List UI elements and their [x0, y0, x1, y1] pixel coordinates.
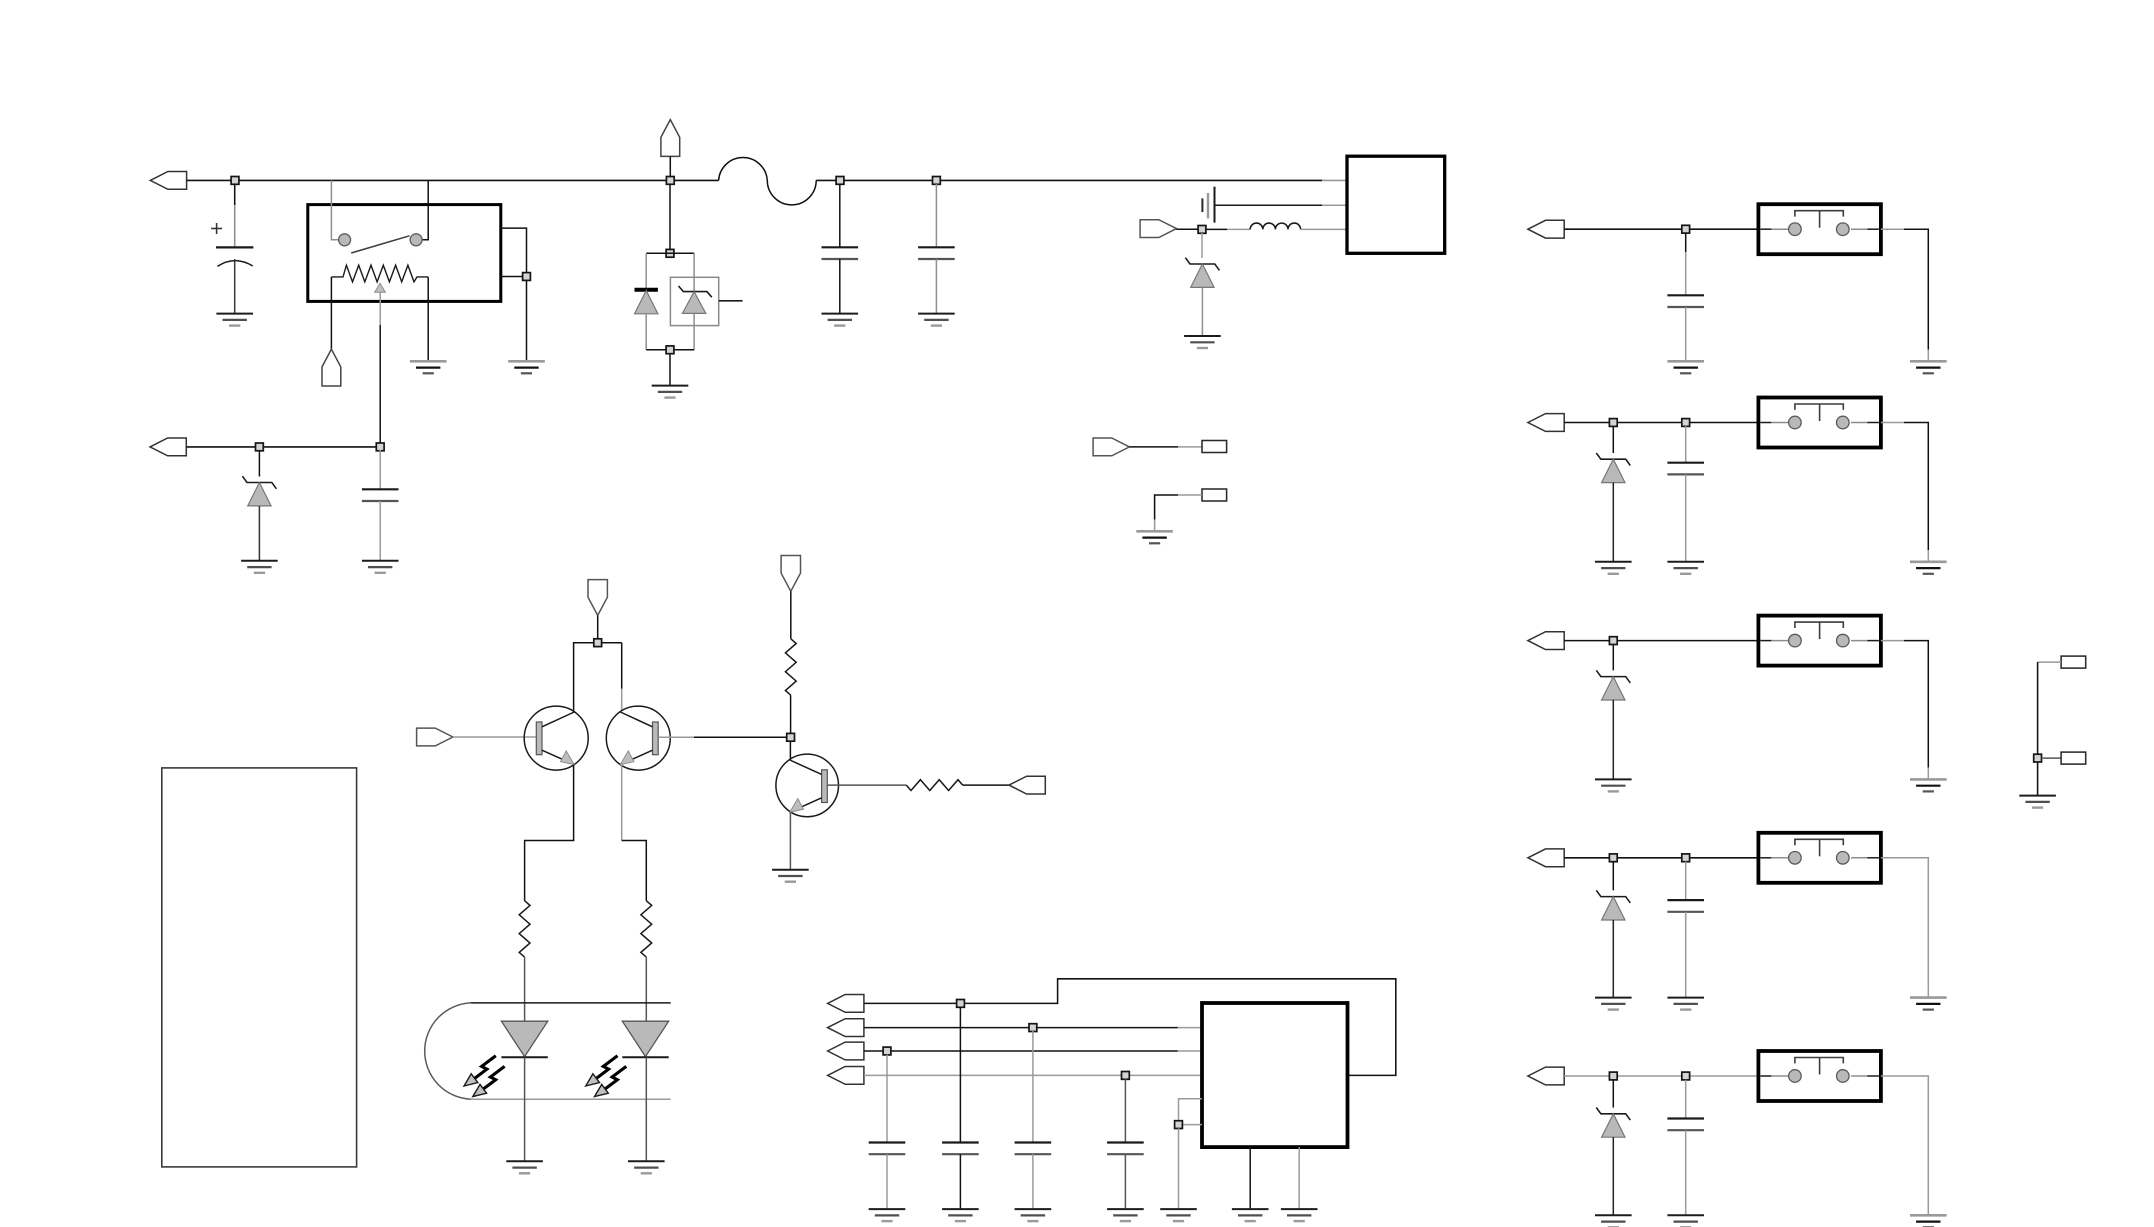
diode D2 — [635, 290, 658, 350]
wire C12 to ground — [1685, 1130, 1687, 1215]
node SW5 junction b — [1682, 1072, 1690, 1080]
wire relay switch right lead — [422, 180, 428, 239]
ground relay case — [508, 361, 545, 373]
wire S4 to ground — [1881, 858, 1928, 998]
capacitor C10 — [1667, 463, 1704, 475]
connector arrow SW4 — [1528, 849, 1564, 867]
node row2 junction — [1029, 1024, 1037, 1032]
big rectangle block — [162, 768, 357, 1167]
ground under LED D6 — [628, 1161, 665, 1173]
capacitor C1 polarized — [211, 223, 253, 314]
node power junction — [666, 177, 674, 185]
wire C11 to ground — [1685, 912, 1687, 998]
wire TP2 to ground — [1155, 495, 1202, 531]
wire R1 to LED1 — [524, 957, 526, 1021]
ground under D10 — [1595, 1215, 1632, 1227]
LED D6 light arrows — [597, 1056, 627, 1089]
capacitor C9 — [1667, 295, 1704, 307]
wire relay switch left lead — [331, 180, 338, 239]
TVS D3 box — [670, 277, 718, 325]
wire zener D1 lead — [258, 450, 260, 477]
wire SW2 row — [1564, 422, 1758, 424]
node junction at C1 — [231, 177, 239, 185]
wire R2 to LED2 — [645, 957, 647, 1021]
IC U2 box — [1202, 1003, 1348, 1147]
node ANT junction — [1198, 226, 1206, 234]
ground under D4 — [1184, 336, 1221, 348]
wire inductor to U1 — [1301, 228, 1347, 230]
ground U2 left — [1160, 1209, 1197, 1221]
node diode pair bottom junction — [666, 346, 674, 354]
wire C8 to ground — [1124, 1154, 1126, 1209]
transistor Q2 — [606, 706, 670, 770]
ground under LED D5 — [506, 1161, 543, 1173]
wire coil right lead down — [427, 277, 429, 361]
ground S4 — [1910, 998, 1947, 1010]
node row1 junction — [957, 1000, 965, 1008]
switch S1 — [1758, 204, 1881, 254]
LED D5 arrowheads — [464, 1074, 487, 1097]
testpoint TP1 — [1202, 441, 1227, 453]
wire C10 lead — [1685, 426, 1687, 463]
wire C1 lead — [234, 184, 236, 205]
wire zener D8 lead — [1612, 644, 1614, 670]
node row4 junction — [1122, 1072, 1130, 1080]
wire TVS cathode lead — [693, 253, 695, 291]
power flag over R3 — [781, 556, 800, 592]
ground under C5 — [869, 1209, 906, 1221]
wire SW1 row — [1564, 228, 1758, 230]
wire C7 to ground — [1032, 1154, 1034, 1209]
wire row2 — [864, 1027, 1202, 1029]
ground under C8 — [1107, 1209, 1144, 1221]
wire diode pair top bar — [646, 252, 694, 254]
chassis antenna symbol — [1202, 187, 1214, 223]
ground under D9 — [1595, 998, 1632, 1010]
relay K1 blade — [351, 236, 409, 253]
wire D4 to ground — [1201, 287, 1203, 336]
wire pin stub into U1 — [1322, 179, 1347, 181]
wire row4 — [864, 1074, 1202, 1076]
wire C5 to ground — [886, 1154, 888, 1209]
ground under C12 — [1667, 1215, 1704, 1227]
wire S3 to ground — [1881, 641, 1928, 780]
wire R4 to connector — [963, 784, 1009, 786]
wire zener D10 lead — [1612, 1080, 1614, 1108]
connector J? left arrow VIN — [150, 172, 186, 190]
diode D1 zener — [242, 476, 276, 506]
wire row2 — [186, 446, 380, 448]
relay K1 contact left — [339, 234, 351, 246]
node junction C3 — [836, 177, 844, 185]
node SW4 junction b — [1682, 854, 1690, 862]
wire R3 to node — [790, 695, 792, 733]
diode D7 zener — [1596, 453, 1630, 483]
transistor Q1 — [524, 706, 588, 770]
switch S4 — [1758, 833, 1881, 883]
wire SW3 row — [1564, 640, 1758, 642]
ground U2 bottom 2 — [1281, 1209, 1318, 1221]
capacitor C3 — [822, 247, 859, 259]
wire C11 lead — [1685, 862, 1687, 901]
diode D8 zener — [1596, 670, 1630, 700]
wire Q2 base to node — [658, 736, 786, 738]
ground U2 bottom 1 — [1232, 1209, 1269, 1221]
wire LED D6 to ground — [645, 1057, 647, 1161]
capacitor C2 — [362, 489, 399, 501]
wire TP3 to TP4 — [2038, 662, 2062, 758]
LED D5 — [501, 1021, 547, 1057]
connector arrow IC row3 — [828, 1042, 864, 1060]
wire C6 to ground — [959, 1154, 961, 1209]
wire TP4 stub — [2042, 757, 2062, 759]
wire Q1 collector down — [525, 765, 574, 901]
capacitor C8 — [1107, 1143, 1144, 1155]
connector left arrow Q3 out — [1009, 776, 1045, 794]
wire U2 pin to ground — [1178, 1128, 1180, 1209]
relay K1 contact right — [410, 234, 422, 246]
wire C4 lead — [935, 184, 937, 247]
node TP4 junction — [2034, 754, 2042, 762]
wire TP4 to ground — [2037, 762, 2039, 796]
wire C9 to ground — [1685, 307, 1687, 361]
switch S5 — [1758, 1051, 1881, 1101]
ground TP4 — [2019, 796, 2056, 808]
node diode pair top junction — [666, 249, 674, 257]
wire power down to diode pair — [669, 184, 671, 253]
node emitter rail junction — [594, 639, 602, 647]
capacitor C7 — [1015, 1143, 1052, 1155]
wire C4 to ground — [935, 259, 937, 314]
capacitor C12 — [1667, 1119, 1704, 1131]
ground under diode pair — [652, 386, 689, 398]
resistor R1 — [519, 901, 530, 957]
LED package stadium — [425, 1003, 671, 1099]
wire relay case stub top — [501, 228, 527, 361]
wire S5 to ground — [1881, 1076, 1928, 1215]
wire flag to R3 — [790, 591, 792, 639]
wire C5 lead — [886, 1055, 888, 1143]
switch S2 — [1758, 398, 1881, 448]
wire D7 to ground — [1612, 483, 1614, 562]
node SW4 junction a — [1609, 854, 1617, 862]
ground under D1 — [241, 561, 278, 573]
diode D3 zener in box — [679, 286, 712, 350]
testpoint TP4 — [2061, 752, 2086, 764]
ground under C7 — [1015, 1209, 1052, 1221]
wire zener D7 lead — [1612, 426, 1614, 453]
capacitor C11 — [1667, 900, 1704, 912]
connector right arrow ANT — [1140, 220, 1176, 238]
wire diode pair bottom bar — [646, 349, 694, 351]
diode D9 zener — [1596, 890, 1630, 920]
node SW3 junction — [1609, 637, 1617, 645]
wire D1 to ground — [258, 506, 260, 561]
wire TVS gate stub — [719, 300, 743, 302]
diode D10 zener — [1596, 1108, 1630, 1138]
node SW2 junction a — [1609, 419, 1617, 427]
node relay case junction — [523, 273, 531, 281]
wire relay wiper to row2 — [379, 292, 381, 325]
wire U2 bottom pin 2 — [1298, 1147, 1300, 1209]
connector arrow SW5 — [1528, 1067, 1564, 1085]
ground under relay coil — [410, 361, 447, 373]
capacitor C6 — [942, 1143, 979, 1155]
ground Q3 emitter — [772, 870, 809, 882]
wire Q3 emitter to ground — [789, 812, 791, 870]
ground under C2 — [362, 561, 399, 573]
wire C2 to ground — [379, 501, 381, 561]
capacitor C4 — [918, 247, 955, 259]
wire main VIN rail left — [187, 179, 719, 181]
diode D4 zener — [1185, 258, 1219, 288]
wire row3 — [864, 1050, 1202, 1052]
wire zener D9 lead — [1612, 862, 1614, 891]
wire D10 to ground — [1612, 1137, 1614, 1215]
ground S3 — [1910, 779, 1947, 791]
ground under D8 — [1595, 779, 1632, 791]
switch S3 — [1758, 616, 1881, 666]
wire emitter rail — [574, 643, 622, 712]
node Q3 base junction — [787, 733, 795, 741]
LED D5 light arrows — [475, 1056, 505, 1089]
node row3 junction — [883, 1047, 891, 1055]
wire D9 to ground — [1612, 920, 1614, 998]
wire C9 lead — [1685, 233, 1687, 295]
connector arrow SW3 — [1528, 632, 1564, 650]
wire U2 left pin 2 — [1183, 1124, 1203, 1126]
node SW5 junction a — [1609, 1072, 1617, 1080]
wire U2 left pins loop — [1179, 1099, 1203, 1121]
connector left arrow row2 — [150, 438, 186, 456]
wire diode D2 anode lead — [645, 253, 647, 289]
connector arrow SW2 — [1528, 414, 1564, 432]
ground under C10 — [1667, 562, 1704, 574]
connector arrow IC row2 — [828, 1019, 864, 1037]
wire C12 lead — [1685, 1080, 1687, 1119]
ground S5 — [1910, 1215, 1947, 1227]
wire TP1 — [1129, 446, 1202, 448]
ground under C1 — [216, 314, 253, 326]
connector arrow IC row4 — [828, 1067, 864, 1085]
resistor R2 — [641, 901, 652, 957]
wire relay case stub bottom — [501, 276, 527, 278]
wire Q3 base to R4 — [827, 784, 906, 786]
ground under C6 — [942, 1209, 979, 1221]
relay K1 coil — [331, 265, 428, 282]
LED D6 arrowheads — [586, 1074, 609, 1097]
connector arrow SW1 — [1528, 220, 1564, 238]
wire C6 lead — [959, 1007, 961, 1143]
wire C8 lead — [1124, 1079, 1126, 1143]
resistor R3 — [785, 639, 796, 695]
capacitor C5 — [869, 1143, 906, 1155]
wire C3 lead — [839, 184, 841, 247]
transistor Q3 — [776, 754, 839, 817]
wire chassis to U1 — [1215, 204, 1348, 206]
power flag top middle — [661, 120, 680, 157]
fuse F1 S-curve — [719, 158, 817, 205]
power flag over Q1 Q2 — [588, 580, 607, 616]
wire Q1 base — [453, 736, 536, 738]
testpoint TP3 — [2061, 656, 2086, 668]
node SW1 junction — [1682, 225, 1690, 233]
ground under C9 — [1667, 361, 1704, 373]
wire U2 bottom pin 1 — [1249, 1147, 1251, 1209]
ground under C3 — [822, 314, 859, 326]
wire junction to inductor — [1206, 228, 1250, 230]
wire flag to junction — [597, 615, 599, 642]
node row2 junction a — [256, 443, 264, 451]
connector arrow Q1 base — [417, 728, 453, 746]
ground S2 — [1910, 562, 1947, 574]
relay K1 wiper arrow — [375, 283, 386, 292]
wire row1 loop around U2 — [864, 979, 1396, 1076]
ground under D7 — [1595, 562, 1632, 574]
node U2 left pin junction — [1175, 1121, 1183, 1129]
wire C7 lead — [1032, 1031, 1034, 1143]
wire coil left lead down — [330, 277, 332, 349]
wire D8 to ground — [1612, 700, 1614, 779]
ground under TP2 — [1136, 531, 1173, 543]
wire C10 to ground — [1685, 474, 1687, 561]
wire LED D5 to ground — [524, 1057, 526, 1161]
node SW2 junction b — [1682, 419, 1690, 427]
connector right arrow TP row — [1093, 438, 1129, 456]
wire main VIN rail right — [816, 179, 1322, 181]
wire C2 lead — [379, 450, 381, 489]
relay K1 box — [308, 205, 501, 302]
wire Q2 collector down — [621, 765, 623, 841]
wire diode pair to ground — [669, 354, 671, 386]
wire S2 to ground — [1881, 423, 1928, 562]
wire C3 to ground — [839, 259, 841, 314]
node junction C4 — [933, 177, 941, 185]
LED D6 — [622, 1021, 668, 1057]
flag connector under relay — [322, 349, 341, 386]
wire ANT to junction — [1176, 228, 1198, 230]
node row2 junction b — [376, 443, 384, 451]
inductor L1 — [1250, 223, 1300, 229]
wire node to Q3 collector — [789, 741, 791, 760]
testpoint TP2 — [1202, 489, 1227, 501]
wire S1 to ground — [1881, 229, 1928, 361]
connector arrow IC row1 — [828, 995, 864, 1013]
resistor R4 — [906, 780, 962, 791]
IC U1 box — [1347, 156, 1445, 253]
wire SW4 row — [1564, 857, 1758, 859]
wire SW5 row — [1564, 1075, 1758, 1077]
ground under C11 — [1667, 998, 1704, 1010]
ground S1 — [1910, 361, 1947, 373]
wire power flag lead — [669, 156, 671, 180]
ground under C4 — [918, 314, 955, 326]
wire zener D4 lead — [1201, 233, 1203, 258]
